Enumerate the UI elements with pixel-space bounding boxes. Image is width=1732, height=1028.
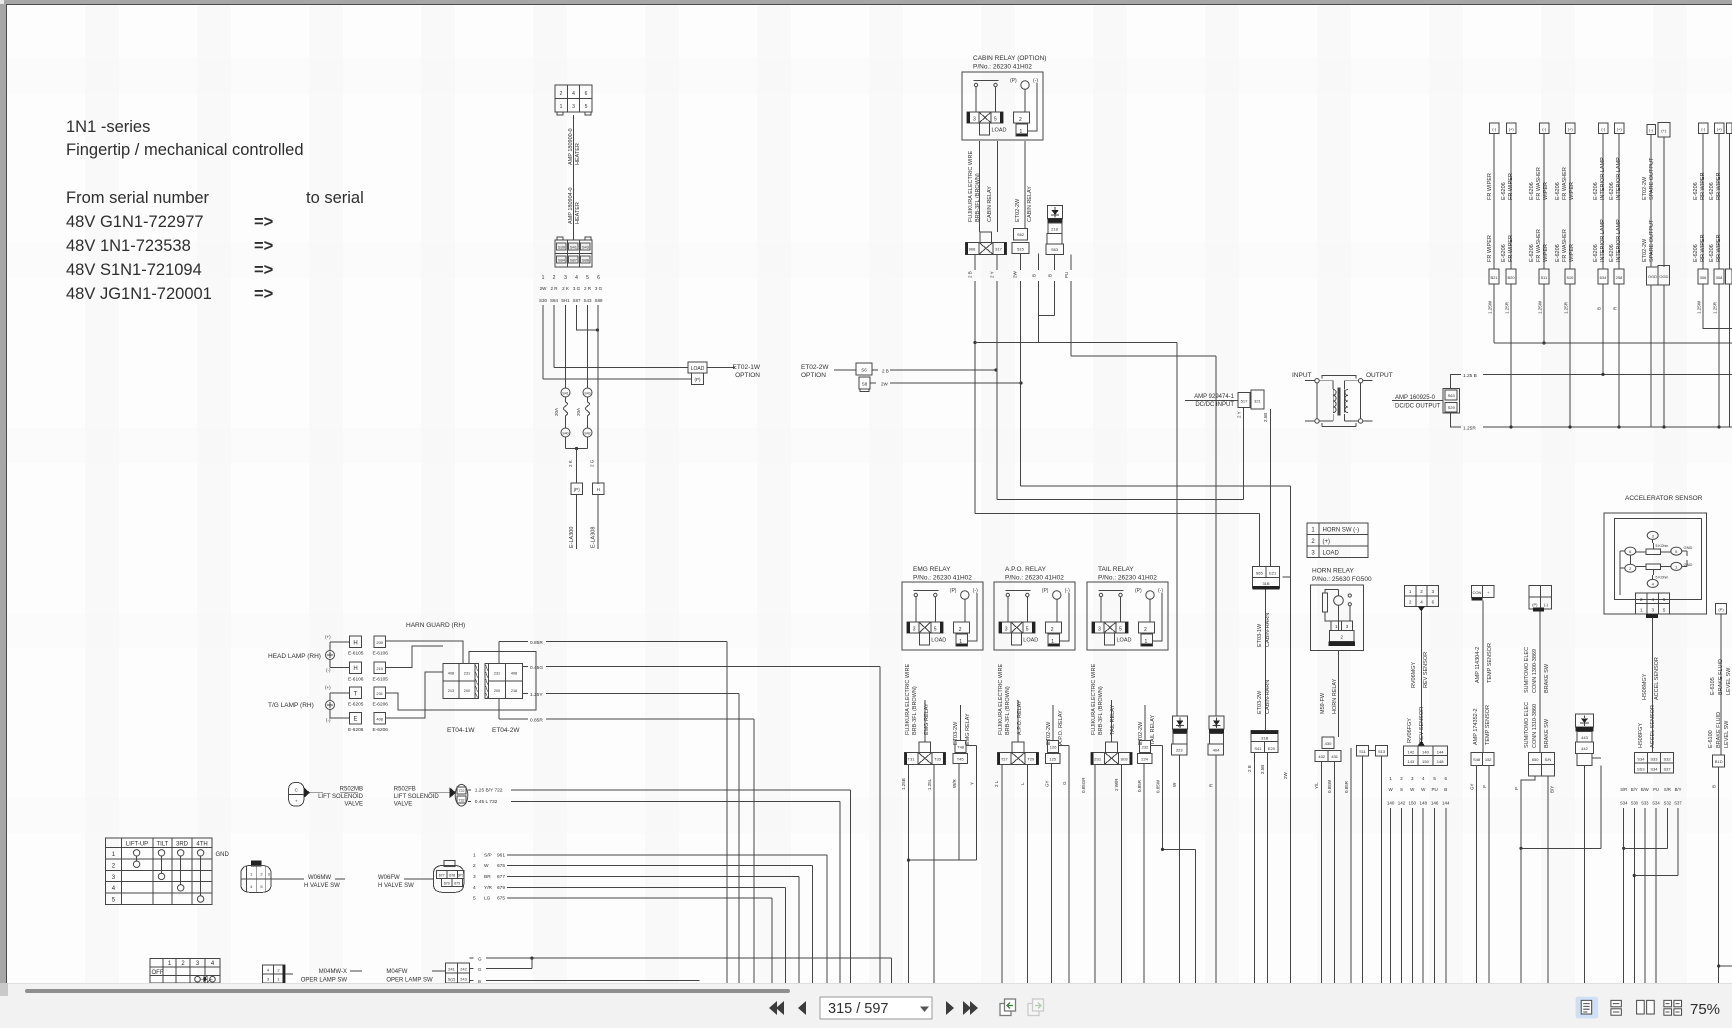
- svg-text:LEVEL SW: LEVEL SW: [1724, 720, 1730, 748]
- svg-text:E-6206: E-6206: [1529, 182, 1535, 200]
- wire brake fluid: [1720, 614, 1722, 755]
- svg-text:BRAKE FLUID: BRAKE FLUID: [1716, 712, 1722, 748]
- svg-text:B: B: [1444, 787, 1447, 792]
- svg-text:E-6105: E-6105: [373, 676, 389, 682]
- svg-text:1: 1: [112, 852, 116, 858]
- svg-text:3: 3: [564, 275, 567, 281]
- svg-text:5: 5: [473, 896, 476, 902]
- table OFF (oper lamp): [150, 958, 220, 983]
- svg-text:2: 2: [473, 863, 476, 869]
- wire EMG coil to connector: [924, 700, 926, 742]
- svg-text:P/No.: 26230 41H02: P/No.: 26230 41H02: [973, 64, 1032, 71]
- svg-text:B: B: [1032, 274, 1037, 277]
- label E-LA308: [591, 527, 597, 548]
- svg-text:E-6206: E-6206: [1709, 244, 1715, 262]
- svg-text:2 W/R: 2 W/R: [1114, 778, 1119, 791]
- svg-text:S41: S41: [570, 245, 578, 250]
- svg-text:M04MW-X: M04MW-X: [319, 969, 347, 975]
- wire S11 down: [1362, 756, 1364, 983]
- label RV06FGY REV SENSOR: [1407, 707, 1425, 743]
- connector W06FW H VALVE SW: [433, 861, 464, 893]
- svg-text:CABIN RELAY (OPTION): CABIN RELAY (OPTION): [973, 55, 1046, 62]
- connector ET04-2W: [485, 664, 522, 699]
- connector AMP 929474-1 DC/DC INPUT: [1194, 394, 1235, 408]
- svg-text:Y/R: Y/R: [484, 885, 493, 891]
- svg-text:=>: =>: [254, 237, 273, 255]
- wire labels EMG: [901, 778, 975, 790]
- svg-text:PU: PU: [1064, 272, 1069, 278]
- svg-text:W06FW: W06FW: [378, 875, 400, 881]
- svg-text:2: 2: [260, 872, 263, 877]
- svg-text:=>: =>: [254, 285, 273, 303]
- svg-text:S11: S11: [1359, 749, 1367, 754]
- svg-text:0.45 L 732: 0.45 L 732: [475, 799, 498, 805]
- label T/G LAMP (RH): [268, 702, 314, 709]
- svg-text:SPARE OUTPUT: SPARE OUTPUT: [1649, 157, 1655, 200]
- svg-text:E-6100: E-6100: [1708, 730, 1714, 748]
- relay A.P.O. RELAY: [1005, 566, 1064, 582]
- connector H E-LA308: [593, 483, 605, 495]
- wire labels TAIL: [1081, 777, 1161, 793]
- fuse S41 20A: [554, 388, 570, 437]
- svg-text:140: 140: [1422, 749, 1429, 754]
- svg-text:E-6206: E-6206: [1693, 244, 1699, 262]
- svg-text:(+): (+): [1323, 539, 1331, 545]
- svg-text:2W: 2W: [540, 286, 548, 291]
- connector AMP 160925-0 DC/DC OUTPUT: [1395, 395, 1441, 410]
- svg-text:LIFT SOLENOID: LIFT SOLENOID: [318, 794, 364, 800]
- svg-text:125: 125: [1049, 757, 1056, 762]
- wire color row accel: [1620, 787, 1681, 792]
- svg-text:(-): (-): [1649, 128, 1654, 133]
- svg-text:2 K: 2 K: [562, 286, 569, 291]
- pin numbers row: [542, 275, 601, 281]
- svg-text:E-6206: E-6206: [1693, 182, 1699, 200]
- svg-text:FUJIKURA ELECTRIC WIRE: FUJIKURA ELECTRIC WIRE: [998, 663, 1004, 735]
- svg-text:200: 200: [376, 640, 383, 645]
- svg-text:(-): (-): [1492, 127, 1497, 132]
- svg-text:HEATER: HEATER: [575, 202, 581, 224]
- svg-text:1: 1: [1335, 624, 1338, 629]
- svg-text:5: 5: [1663, 607, 1666, 612]
- svg-text:0.45G: 0.45G: [530, 665, 543, 671]
- svg-text:(+): (+): [1661, 128, 1667, 133]
- svg-text:148: 148: [1437, 759, 1444, 764]
- svg-text:408: 408: [511, 672, 517, 676]
- svg-text:S30: S30: [558, 245, 566, 250]
- svg-text:443: 443: [1581, 735, 1588, 740]
- svg-text:E-6206: E-6206: [1501, 244, 1507, 262]
- svg-text:+: +: [1487, 590, 1490, 595]
- diode stack D-BRAKE 443/442: [1576, 714, 1594, 765]
- horizontal scrollbar thumb: [25, 989, 790, 993]
- connector EMG T48/T45: [953, 740, 968, 763]
- svg-text:1: 1: [1389, 776, 1392, 781]
- svg-text:3: 3: [268, 872, 271, 877]
- svg-text:4: 4: [473, 885, 476, 891]
- connector R502MB lift solenoid: [289, 783, 310, 806]
- svg-text:T29: T29: [1027, 757, 1035, 762]
- wire jog W/R,Y to 1.25B: [909, 859, 977, 861]
- svg-text:4: 4: [211, 961, 215, 967]
- svg-text:E-6206: E-6206: [1501, 182, 1507, 200]
- svg-text:P/No.: 26230 41H02: P/No.: 26230 41H02: [913, 575, 972, 582]
- connector REV SENSOR RV06FGY: [1404, 741, 1448, 766]
- wire labels horn: [1314, 779, 1349, 793]
- wire jog accel S/R: [1624, 847, 1668, 849]
- wire lamp to H boxes: [330, 642, 350, 668]
- svg-text:G: G: [1062, 781, 1067, 785]
- svg-text:P/No.: 26230 41H02: P/No.: 26230 41H02: [1005, 575, 1064, 582]
- connector ET03-2W 31B/S41/E20: [1251, 730, 1278, 752]
- svg-text:W: W: [1172, 782, 1177, 787]
- svg-text:1.25W: 1.25W: [1538, 300, 1543, 314]
- wire jog 0.85W to R col: [1163, 849, 1196, 983]
- svg-text:3: 3: [1411, 776, 1414, 781]
- wires temp down: [1477, 765, 1490, 983]
- svg-text:224: 224: [1141, 757, 1148, 762]
- wire 1.25R output bus: [1451, 413, 1461, 427]
- wire B (S63) down: [1054, 255, 1056, 316]
- wire PU down: [1070, 255, 1072, 356]
- svg-text:3 G: 3 G: [595, 286, 603, 291]
- svg-text:510: 510: [1567, 275, 1574, 280]
- svg-text:ET03-1W: ET03-1W: [1257, 623, 1263, 647]
- svg-text:E-6205: E-6205: [348, 702, 364, 708]
- fuse S43 20A: [576, 388, 592, 437]
- svg-text:1: 1: [1409, 589, 1412, 594]
- wire bus 2B to ET03 conn: [975, 513, 1260, 566]
- svg-text:0.85R: 0.85R: [1137, 779, 1142, 792]
- svg-text:CABIN-HARN: CABIN-HARN: [1265, 680, 1271, 714]
- wire bus to diode W column: [975, 343, 1177, 717]
- right column pair FR WIPER: [1487, 123, 1516, 429]
- svg-text:5H1: 5H1: [561, 298, 570, 303]
- bottom toolbar: [0, 983, 1732, 1028]
- svg-text:31B: 31B: [1261, 736, 1268, 741]
- connector 430/432-431: [1315, 737, 1341, 761]
- label HS08FGY ACCEL SENSOR: [1638, 705, 1656, 748]
- connector EMG T31/T33: [904, 742, 945, 765]
- svg-text:INTERIOR LAMP: INTERIOR LAMP: [1616, 219, 1622, 262]
- svg-text:S03: S03: [1121, 757, 1129, 762]
- connector cabin relay coil (968|X|317): [965, 232, 1006, 255]
- viewer left strip: [0, 0, 6, 983]
- svg-text:231: 231: [376, 691, 383, 696]
- svg-text:H VALVE SW: H VALVE SW: [304, 883, 340, 889]
- svg-text:1.25 B: 1.25 B: [1463, 373, 1477, 379]
- svg-text:675: 675: [497, 863, 505, 869]
- svg-text:4: 4: [575, 275, 578, 281]
- svg-text:675: 675: [497, 896, 505, 902]
- svg-text:ACCEL SENSOR: ACCEL SENSOR: [1650, 705, 1656, 748]
- svg-text:430: 430: [1325, 741, 1332, 746]
- lamp HEAD LAMP circle: [326, 651, 335, 660]
- svg-text:OUTPUT: OUTPUT: [1366, 372, 1393, 379]
- wire 0.85R down: [1350, 748, 1352, 983]
- svg-text:B/Y: B/Y: [1675, 787, 1682, 792]
- svg-text:S30: S30: [539, 298, 548, 303]
- sensor internal wires: [1620, 539, 1687, 579]
- label SUMITOMO ELEC CONN 1310-3860 BRAKE SW: [1524, 702, 1550, 748]
- svg-text:6: 6: [1629, 549, 1632, 554]
- connector LOAD ET02-1W: [688, 362, 707, 385]
- label HEAD LAMP (RH): [268, 653, 321, 660]
- svg-text:1.25L: 1.25L: [927, 778, 932, 790]
- svg-text:RV06MGY: RV06MGY: [1411, 661, 1417, 688]
- svg-text:S6: S6: [861, 368, 867, 373]
- label E-LA300: [569, 527, 575, 548]
- wire bus 2W to ET03: [1021, 486, 1291, 577]
- wire 1.25B down: [908, 764, 910, 983]
- svg-text:961: 961: [497, 852, 505, 858]
- wire relay pin2 down: [1024, 141, 1026, 228]
- svg-text:RR WIPER: RR WIPER: [1716, 234, 1722, 262]
- svg-text:126: 126: [1050, 744, 1057, 749]
- connector BRAKE FLUID [P]: [1716, 604, 1727, 615]
- svg-text:BR: BR: [484, 874, 491, 880]
- svg-text:(-): (-): [326, 668, 331, 673]
- connector box 210: [374, 662, 386, 674]
- wire code row: [539, 298, 603, 303]
- svg-text:0.85W: 0.85W: [1327, 779, 1332, 793]
- svg-text:1.25R: 1.25R: [1463, 426, 1476, 432]
- svg-text:E-6206: E-6206: [1555, 244, 1561, 262]
- svg-text:E-6106: E-6106: [373, 651, 389, 657]
- svg-text:CONN 1310-3860: CONN 1310-3860: [1532, 704, 1538, 748]
- svg-text:FUJIKURA ELECTRIC WIRE: FUJIKURA ELECTRIC WIRE: [968, 150, 974, 222]
- svg-text:1.25W: 1.25W: [1697, 300, 1702, 314]
- svg-text:6: 6: [597, 275, 600, 281]
- wire 722 bus: [475, 788, 503, 794]
- svg-text:to serial: to serial: [306, 189, 364, 207]
- svg-text:1.25 B/Y 722: 1.25 B/Y 722: [475, 788, 503, 794]
- svg-text:S33: S33: [1650, 756, 1658, 761]
- svg-text:(-): (-): [1544, 602, 1549, 607]
- diode stack D-CABIN 218/S63: [1048, 206, 1063, 234]
- svg-text:OGD: OGD: [1648, 274, 1657, 279]
- svg-text:OPTION: OPTION: [801, 372, 826, 379]
- wire labels APO: [994, 780, 1067, 787]
- wire ET03 interlink: [1265, 590, 1267, 731]
- svg-text:677: 677: [497, 874, 505, 880]
- svg-text:4: 4: [250, 884, 253, 889]
- svg-text:HS08FGY: HS08FGY: [1638, 723, 1644, 748]
- label AMP 114304-2 TEMP SENSOR: [1475, 643, 1493, 683]
- svg-text:2 B: 2 B: [968, 271, 973, 278]
- label FUJIKURA EMG: [905, 663, 930, 735]
- wire 0.85W down: [1334, 761, 1336, 983]
- svg-text:3: 3: [572, 104, 575, 110]
- svg-text:3: 3: [1652, 533, 1655, 538]
- svg-text:143: 143: [1408, 759, 1415, 764]
- connector P E-LA300: [571, 483, 583, 495]
- svg-text:1: 1: [1311, 528, 1315, 534]
- svg-text:LG: LG: [484, 896, 491, 902]
- connector ET03-1W S65/E21/31B: [1253, 567, 1280, 590]
- pin numbers rev: [1389, 776, 1447, 781]
- svg-text:210: 210: [376, 666, 383, 671]
- wire to S6: [834, 369, 856, 371]
- svg-text:20A: 20A: [554, 408, 559, 416]
- connector TEMP S48/152: [1471, 753, 1494, 766]
- right column pair INTERIOR LAMP: [1593, 123, 1624, 429]
- svg-text:3 G: 3 G: [573, 286, 581, 291]
- svg-text:WIPER: WIPER: [1543, 182, 1549, 200]
- transformer T1: [1292, 372, 1393, 427]
- svg-text:675: 675: [454, 881, 460, 885]
- svg-text:A.P.O. RELAY: A.P.O. RELAY: [1005, 566, 1047, 573]
- svg-text:E21: E21: [1269, 571, 1277, 576]
- svg-text:P: P: [1514, 787, 1519, 790]
- svg-text:5 KOhm: 5 KOhm: [1656, 544, 1669, 548]
- wire to ET02-1W P: [543, 378, 692, 380]
- svg-text:H: H: [597, 487, 600, 492]
- svg-text:2: 2: [1409, 599, 1412, 604]
- svg-text:1: 1: [473, 852, 476, 858]
- svg-text:R: R: [1613, 306, 1618, 310]
- wire to ET02-1W LOAD: [554, 367, 688, 369]
- connector W06MW H VALVE SW: [241, 861, 272, 893]
- svg-text:(P): (P): [1532, 602, 1538, 607]
- svg-text:2: 2: [1400, 776, 1403, 781]
- svg-text:AMP 180904-0: AMP 180904-0: [568, 187, 574, 224]
- svg-text:TEMP SENSOR: TEMP SENSOR: [1485, 705, 1491, 745]
- svg-text:243: 243: [460, 977, 467, 982]
- wire EMG Y jog: [966, 746, 977, 860]
- connector ACCEL HS08MGY: [1636, 593, 1670, 618]
- wire temp sensor: [1482, 600, 1484, 752]
- svg-text:S43: S43: [582, 245, 590, 250]
- svg-text:150: 150: [1422, 759, 1429, 764]
- svg-text:231: 231: [494, 672, 500, 676]
- svg-text:2 B: 2 B: [882, 369, 889, 374]
- wire LG 675: [507, 898, 772, 983]
- label ET03-2W TAIL RELAY: [1138, 715, 1156, 745]
- svg-text:442: 442: [1581, 746, 1588, 751]
- connector S11-S13 link: [1357, 746, 1388, 757]
- wire B (515) down: [1038, 254, 1040, 343]
- svg-text:B: B: [1597, 307, 1602, 310]
- svg-text:20A: 20A: [576, 408, 581, 416]
- svg-text:231: 231: [464, 672, 470, 676]
- svg-text:OGD: OGD: [1659, 274, 1668, 279]
- wire S/P 961: [507, 855, 827, 983]
- svg-text:G: G: [478, 957, 482, 962]
- svg-text:1: 1: [1640, 607, 1643, 612]
- wire 1.25Y bus row3: [523, 693, 528, 695]
- svg-text:408: 408: [448, 672, 454, 676]
- svg-text:2W: 2W: [1283, 771, 1288, 779]
- svg-text:S63: S63: [1448, 393, 1456, 398]
- svg-text:1.25Y: 1.25Y: [530, 692, 543, 698]
- svg-text:P/No.: 25630 FG500: P/No.: 25630 FG500: [1312, 576, 1372, 583]
- svg-text:2 R: 2 R: [584, 286, 592, 291]
- svg-text:HORN RELAY: HORN RELAY: [1312, 568, 1354, 575]
- svg-text:3: 3: [1311, 551, 1315, 557]
- svg-text:WIPER: WIPER: [1569, 182, 1575, 200]
- svg-text:LOAD: LOAD: [691, 366, 705, 372]
- wire 2W long down: [1290, 577, 1292, 983]
- svg-text:E-6206: E-6206: [1529, 244, 1535, 262]
- wire lamp to T/E boxes: [330, 693, 350, 718]
- lamp T/G LAMP circle: [326, 701, 335, 710]
- svg-text:146: 146: [1431, 801, 1439, 806]
- table LIFT-UP/TILT/3RD/4TH: [106, 838, 230, 905]
- svg-text:HS08MGY: HS08MGY: [1642, 673, 1648, 700]
- pin list H VALVE: [473, 852, 505, 901]
- svg-text:(P): (P): [1718, 607, 1724, 612]
- svg-text:S43: S43: [583, 298, 592, 303]
- svg-text:W: W: [1410, 787, 1415, 792]
- svg-text:T/G LAMP (RH): T/G LAMP (RH): [268, 702, 314, 709]
- svg-text:ET02-2W: ET02-2W: [1642, 176, 1648, 200]
- svg-text:3: 3: [473, 874, 476, 880]
- label FUJIKURA APO: [998, 663, 1023, 735]
- svg-text:ACCELERATOR SENSOR: ACCELERATOR SENSOR: [1625, 495, 1703, 502]
- wire 1.25L down: [933, 764, 935, 983]
- svg-text:A.P.O. RELAY: A.P.O. RELAY: [1058, 710, 1064, 745]
- svg-text:GY: GY: [1470, 783, 1475, 790]
- wire labels ET03-2W: [1247, 765, 1288, 779]
- scrollbar corner: [0, 983, 8, 996]
- svg-text:S/N: S/N: [1545, 757, 1552, 762]
- svg-text:677: 677: [439, 873, 445, 877]
- wire code row rev: [1387, 801, 1450, 806]
- label HS08MGY ACCEL SENSOR: [1642, 657, 1660, 700]
- svg-text:OPTION: OPTION: [735, 372, 760, 379]
- svg-text:ET02-2W: ET02-2W: [1138, 721, 1144, 745]
- svg-text:2: 2: [553, 275, 556, 281]
- svg-text:1.25R: 1.25R: [1505, 301, 1510, 314]
- svg-text:VALVE: VALVE: [394, 802, 412, 808]
- wire 2B cabin down: [974, 254, 976, 513]
- svg-text:S34: S34: [1652, 801, 1660, 806]
- svg-text:FR WIPER: FR WIPER: [1487, 235, 1493, 262]
- wire 0.85GR down: [1094, 764, 1096, 983]
- wire 2Y cabin down: [996, 254, 998, 499]
- svg-text:ET02-2W: ET02-2W: [801, 364, 829, 371]
- svg-text:BRB-3FL (BROWN): BRB-3FL (BROWN): [912, 686, 918, 735]
- svg-text:FR WASHER: FR WASHER: [1536, 229, 1542, 262]
- svg-text:H: H: [353, 666, 357, 672]
- svg-text:E-6106: E-6106: [348, 676, 364, 682]
- svg-text:1.25W: 1.25W: [1488, 300, 1493, 314]
- wire 2.5B down: [1267, 753, 1269, 983]
- svg-text:5: 5: [112, 898, 116, 904]
- svg-text:FR WIPER: FR WIPER: [1487, 173, 1493, 200]
- label HARN GUARD (RH): [406, 622, 465, 629]
- svg-text:408: 408: [376, 716, 383, 721]
- svg-text:HEAD LAMP (RH): HEAD LAMP (RH): [268, 653, 321, 660]
- svg-text:TILT: TILT: [156, 842, 168, 848]
- svg-text:9P1: 9P1: [457, 873, 463, 877]
- wire to E-LA308: [597, 495, 599, 550]
- wire L down: [1027, 764, 1029, 983]
- svg-text:517: 517: [1241, 399, 1248, 404]
- svg-text:2 B: 2 B: [1247, 765, 1252, 772]
- connector M04FW 241/242/243: [446, 963, 470, 983]
- svg-text:T: T: [354, 691, 358, 697]
- svg-text:E-6206: E-6206: [348, 727, 364, 733]
- svg-text:308: 308: [1716, 275, 1723, 280]
- svg-text:E-LA300: E-LA300: [569, 527, 575, 548]
- svg-text:241: 241: [448, 967, 455, 972]
- svg-text:142: 142: [1398, 801, 1406, 806]
- svg-text:LEVEL SW: LEVEL SW: [1726, 667, 1732, 695]
- svg-text:2: 2: [1420, 589, 1423, 594]
- wire 0.45G bus row2: [523, 666, 528, 668]
